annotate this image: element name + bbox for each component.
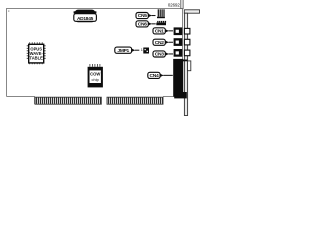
label CN3 bbox=[153, 51, 173, 58]
svg-text:JMP1: JMP1 bbox=[117, 48, 129, 54]
jack CN1 port bbox=[184, 28, 190, 34]
jack CN2 body bbox=[174, 38, 183, 46]
svg-text:COW: COW bbox=[90, 72, 100, 77]
svg-text:chip: chip bbox=[92, 77, 100, 82]
connector CN6 header bbox=[156, 21, 166, 25]
bracket bar bbox=[184, 13, 187, 115]
chip U3 (DSP) bbox=[88, 64, 103, 87]
edge connector segment 1 bbox=[35, 97, 101, 104]
jack CN3 port bbox=[184, 50, 190, 56]
jack CN3 body bbox=[174, 49, 183, 57]
corner mark bbox=[8, 10, 9, 11]
bracket top tab bbox=[181, 0, 183, 9]
label JMP1 bbox=[115, 47, 140, 54]
bracket foot tab bbox=[174, 92, 187, 98]
label CN1 bbox=[153, 28, 173, 35]
svg-text:CN3: CN3 bbox=[155, 52, 164, 58]
bracket arm bbox=[184, 10, 199, 13]
game port connector CN4 bbox=[173, 59, 183, 97]
chip U1 AD1845 bbox=[74, 10, 97, 23]
svg-text:CN4: CN4 bbox=[150, 73, 159, 79]
board outline bbox=[7, 9, 183, 105]
jumper JMP1 block bbox=[143, 48, 149, 54]
jack CN2 port bbox=[184, 39, 190, 45]
label CN6 bbox=[136, 21, 156, 28]
chip U2 OPUS WAVE-TABLE bbox=[27, 42, 46, 64]
label CN4 bbox=[148, 72, 173, 79]
svg-text:CN5: CN5 bbox=[138, 13, 147, 19]
svg-text:CN1: CN1 bbox=[155, 29, 164, 35]
label CN5 bbox=[136, 13, 156, 20]
volume wheel bbox=[188, 61, 191, 71]
svg-text:AD1845: AD1845 bbox=[77, 16, 94, 22]
svg-text:TABLE: TABLE bbox=[30, 55, 44, 60]
svg-text:02692: 02692 bbox=[168, 3, 181, 8]
svg-text:CN6: CN6 bbox=[138, 22, 147, 28]
svg-text:CN2: CN2 bbox=[155, 40, 164, 46]
svg-text:1: 1 bbox=[141, 48, 143, 52]
connector CN5 pin header bbox=[157, 9, 165, 18]
jack CN1 body bbox=[174, 27, 183, 35]
edge connector segment 2 bbox=[107, 97, 163, 104]
volume wheel nub bbox=[183, 60, 188, 62]
label CN2 bbox=[153, 39, 173, 46]
